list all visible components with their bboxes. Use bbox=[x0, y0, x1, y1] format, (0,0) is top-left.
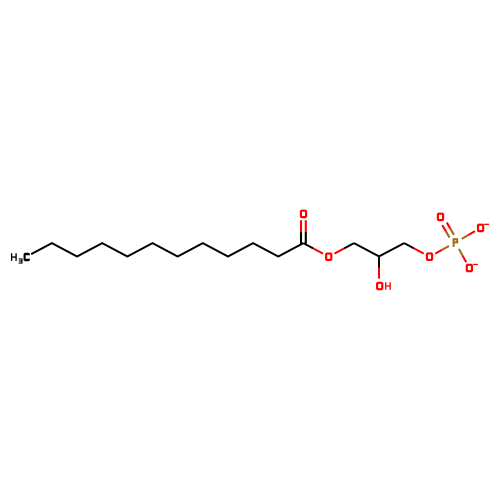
atom O phosphoester label bbox=[426, 252, 433, 261]
bond C1-O(ester) bbox=[303, 243, 313, 248]
atom O double-bonded to P label bbox=[437, 213, 444, 222]
bond P=O double-bond line 1 bbox=[450, 229, 454, 235]
bond O(ester)-C(g3) bbox=[334, 248, 344, 253]
charge minus on O upper right bbox=[484, 224, 489, 225]
atom P phosphorus label bbox=[453, 238, 459, 246]
bond C(g1)-O(phosphoester) bbox=[404, 243, 414, 248]
bond O(phosphoester)-P bbox=[435, 250, 442, 254]
bond P-O(minus lower right) bbox=[459, 249, 463, 256]
atom O-minus upper right label bbox=[477, 224, 484, 233]
bond C(g3)-C(g2) bbox=[354, 243, 379, 256]
atom O carbonyl label bbox=[300, 210, 307, 219]
bond P-O(minus upper right) bbox=[462, 235, 469, 239]
atom O of hydroxyl label bbox=[376, 282, 383, 291]
bond C1=O carbonyl double-bond line 1 bbox=[300, 220, 302, 232]
charge minus on O lower right bbox=[473, 264, 478, 265]
label subscript 3 of H3C bbox=[19, 258, 23, 263]
label H of hydroxyl bbox=[385, 282, 391, 290]
atom O ester label bbox=[325, 252, 332, 261]
label H of H3C terminal methyl bbox=[11, 253, 17, 261]
bond C(g2)-OH hydroxyl bbox=[378, 257, 380, 268]
bond C(g2)-C(g1) bbox=[379, 243, 404, 256]
atom C12 label C bbox=[24, 253, 30, 262]
atom O-minus lower right label bbox=[466, 264, 473, 273]
wire: alkyl chain bonds C12-C1 zigzag bbox=[31, 243, 303, 256]
bond P=O double-bond line 2 bbox=[446, 231, 450, 237]
bond C1=O carbonyl double-bond line 2 bbox=[305, 220, 307, 232]
